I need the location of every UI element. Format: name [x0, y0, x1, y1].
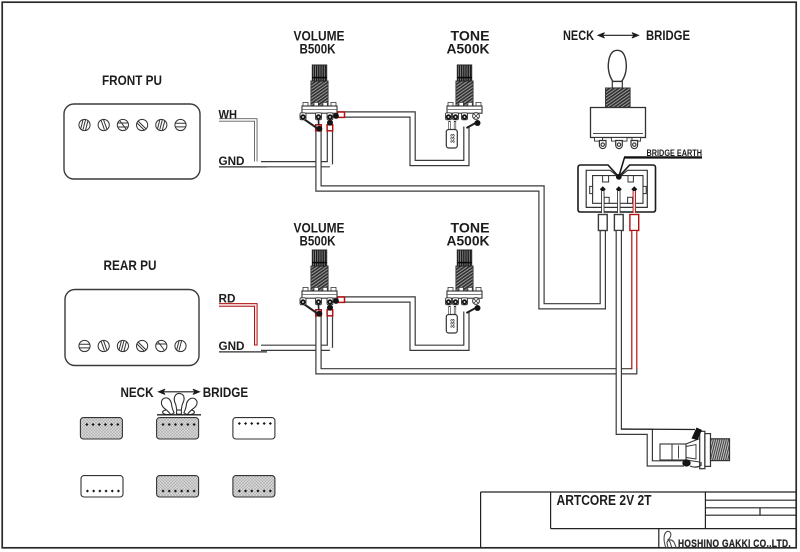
rear volume pot VOLUME B500K [294, 220, 345, 304]
front pickup [64, 104, 200, 179]
wire rear cable sheath to rear volume lug [261, 315, 330, 348]
svg-text:REAR PU: REAR PU [104, 257, 157, 273]
connector pins [600, 186, 638, 192]
svg-text:NECK: NECK [563, 27, 594, 43]
svg-text:FRONT PU: FRONT PU [102, 72, 162, 88]
selector toggle levers [159, 394, 198, 417]
svg-text:B500K: B500K [300, 42, 336, 57]
logo HOSHINO GAKKI [664, 531, 791, 549]
rear volume red sleeves and lug wires [305, 297, 481, 317]
connector pin2 lead + sleeve [614, 191, 623, 231]
wire pin2 down to jack [619, 231, 684, 463]
front tone pot TONE A500K [446, 28, 490, 119]
capacitor front tone [446, 121, 457, 148]
selector icon row2 col2 (shaded) [157, 476, 199, 497]
svg-text:333: 333 [450, 319, 456, 328]
wire RD red from rear pickup [219, 305, 256, 346]
connector block [578, 165, 656, 212]
wire GND front thin [219, 166, 267, 168]
capacitor rear tone [446, 306, 457, 333]
arrow neck-bridge selector [159, 389, 200, 394]
wire rear volume to rear tone [336, 300, 466, 348]
svg-text:NECK: NECK [121, 384, 154, 400]
svg-text:BRIDGE: BRIDGE [203, 384, 249, 400]
svg-text:A500K: A500K [447, 234, 490, 249]
wire front cable sheath to volume lug [261, 130, 330, 164]
svg-text:A500K: A500K [447, 42, 490, 57]
wire front volume to front tone [336, 115, 466, 164]
toggle switch U1 [591, 50, 646, 148]
title block [481, 492, 796, 548]
bridge earth leader line [619, 157, 702, 175]
svg-text:GND: GND [219, 156, 245, 168]
op front volume pot VOLUME B500K [294, 28, 345, 119]
front volume red sleeves and lug wires [305, 112, 481, 132]
svg-text:BRIDGE: BRIDGE [646, 27, 690, 43]
connector pin3 red lead + sleeve [630, 191, 639, 231]
wire front volume to front long run (to switch connector pin1) [319, 128, 603, 306]
selector icon row1 col1 (shaded) [80, 418, 122, 439]
selector icon row1 col2 (shaded) [157, 418, 199, 439]
selector icon row2 col1 (white) [81, 476, 123, 497]
wire red pin3 down to rear run [631, 231, 637, 370]
selector base line [157, 414, 201, 416]
wire WH from front pickup to volume [219, 120, 256, 162]
selector icon row1 col3 (white) [233, 418, 275, 439]
connector pin1 lead + sleeve [598, 191, 607, 231]
svg-text:ARTCORE 2V 2T: ARTCORE 2V 2T [557, 493, 652, 509]
rear pickup [65, 290, 199, 366]
svg-text:GND: GND [219, 341, 245, 353]
output jack [621, 428, 730, 469]
wire rear volume drop to rear long run (to connector pin2/pin3) [319, 313, 638, 371]
arrow neck-bridge top [598, 33, 639, 38]
svg-text:333: 333 [450, 134, 456, 143]
wire GND rear thin [219, 351, 267, 353]
svg-text:B500K: B500K [300, 234, 336, 249]
selector icon row2 col3 (shaded) [233, 476, 275, 497]
rear tone pot TONE A500K [446, 220, 490, 304]
svg-text:HOSHINO GAKKI CO.,LTD.: HOSHINO GAKKI CO.,LTD. [678, 538, 791, 550]
